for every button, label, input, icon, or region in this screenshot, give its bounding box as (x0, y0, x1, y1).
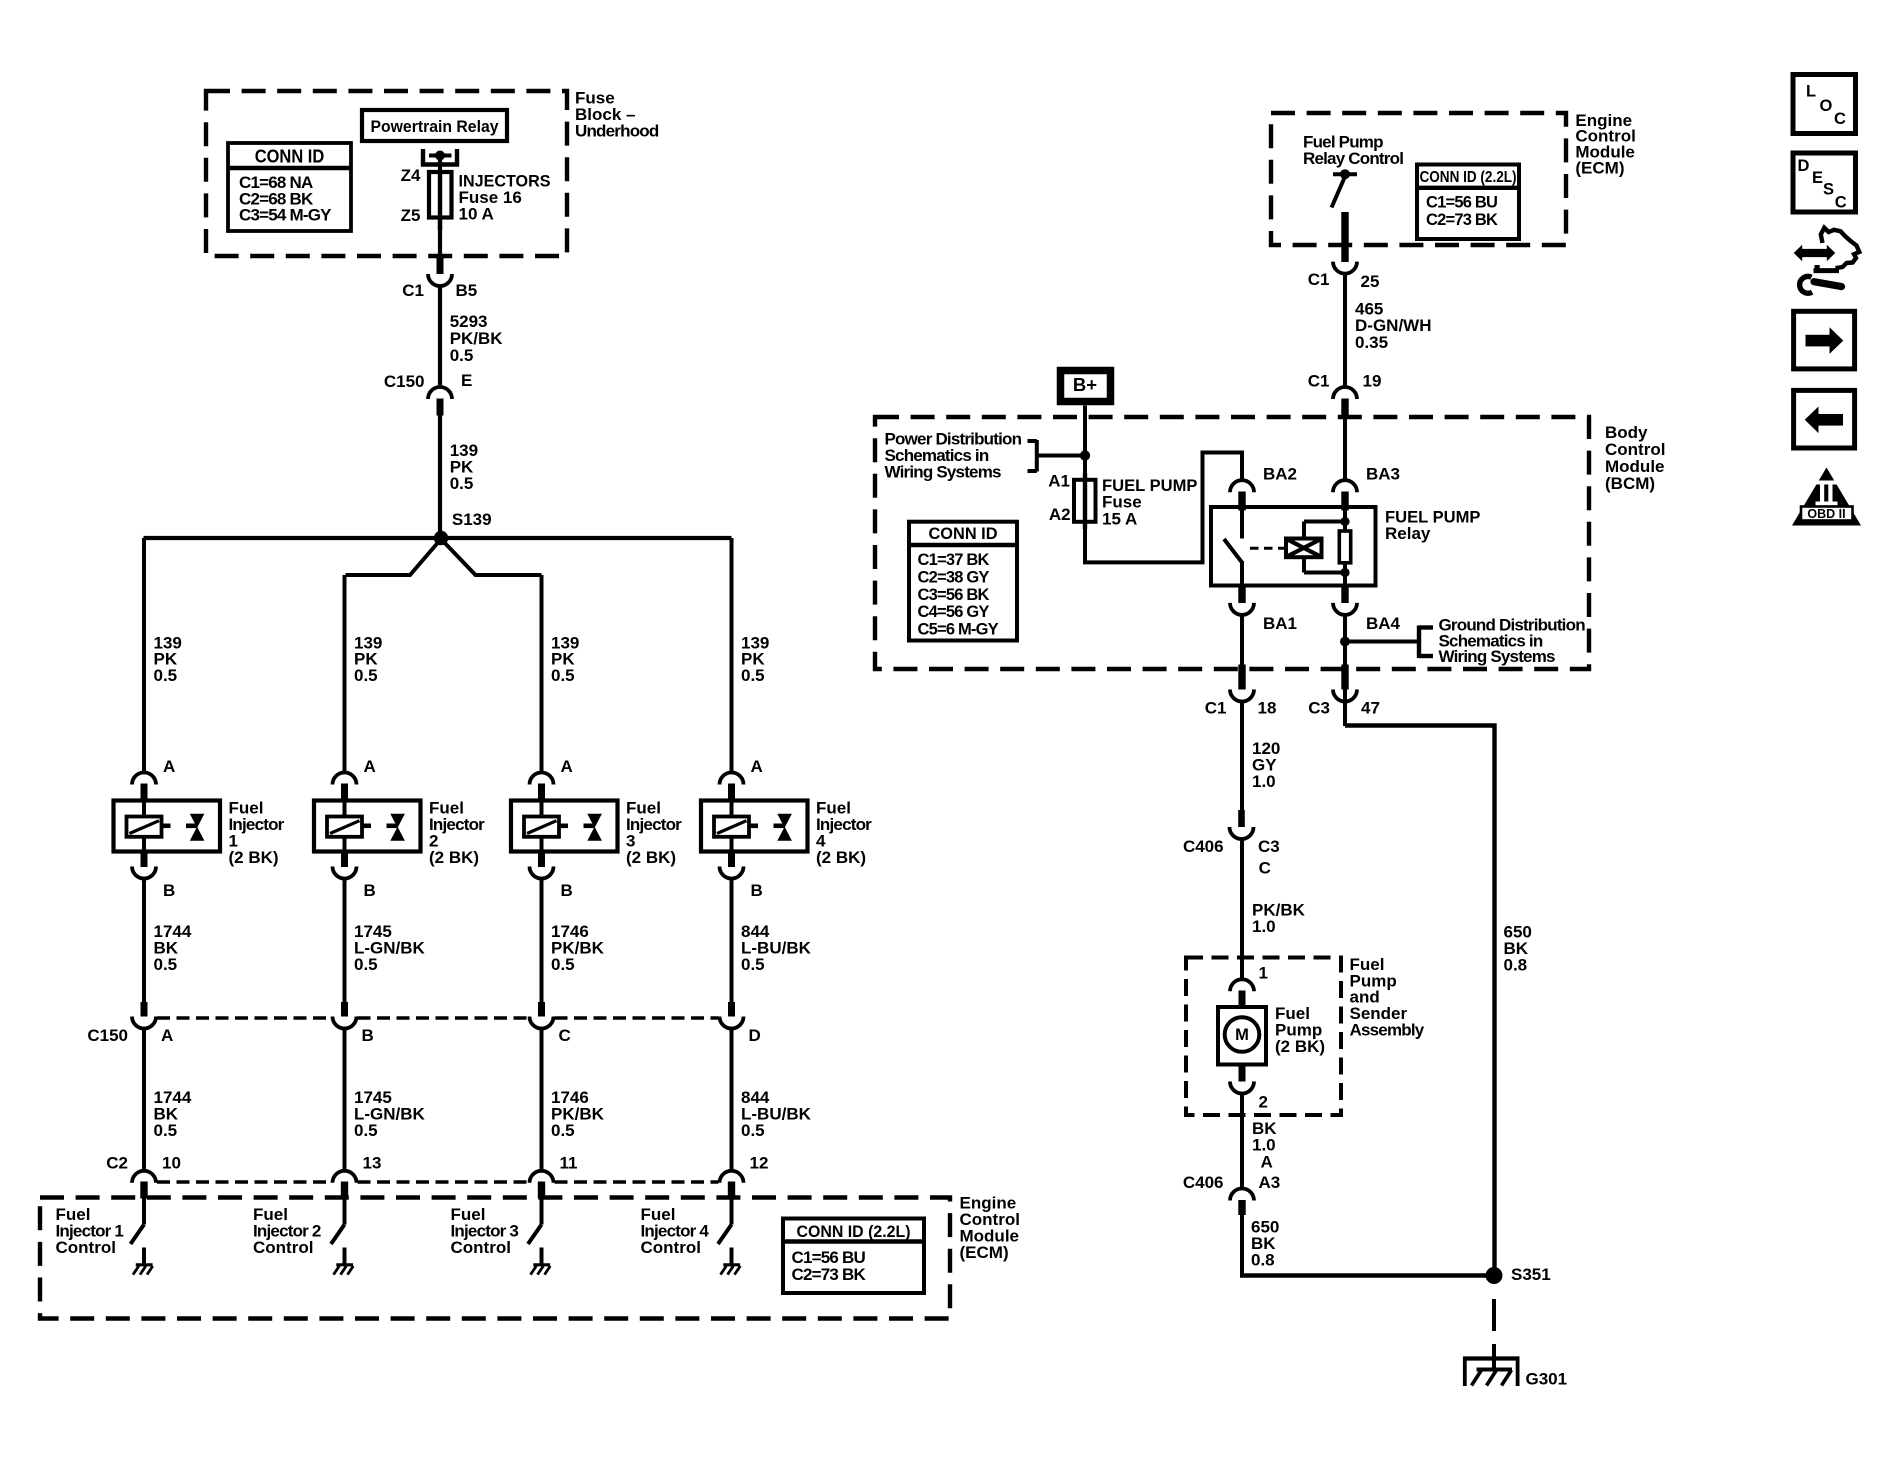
power feed box: B+ (1061, 371, 1111, 402)
relay switch contact (1240, 509, 1244, 539)
svg-text:15 A: 15 A (1102, 509, 1137, 528)
connector BA4 (1341, 586, 1348, 604)
wire 1744 BK 0.5 lower segment (142, 1028, 146, 1171)
svg-text:C1=56 BU: C1=56 BU (1426, 194, 1497, 212)
svg-text:Control: Control (253, 1238, 313, 1257)
connector C150 pin A (141, 1002, 148, 1017)
svg-text:(2 BK): (2 BK) (429, 848, 479, 867)
connector BA1 (1238, 586, 1245, 604)
svg-text:0.5: 0.5 (354, 955, 378, 974)
wire: fuse to connector C1/B5 (438, 218, 442, 257)
svg-text:C1=56 BU: C1=56 BU (792, 1248, 866, 1267)
svg-text:B+: B+ (1073, 374, 1097, 395)
connector: injector 3 pin A (530, 773, 554, 785)
svg-text:(2 BK): (2 BK) (1275, 1037, 1325, 1056)
wire: S139 diagonal to injector 2 branch (346, 539, 442, 575)
svg-text:A2: A2 (1049, 505, 1071, 524)
fuel injector 2 component box (314, 801, 421, 852)
svg-text:C2=73 BK: C2=73 BK (792, 1265, 867, 1284)
fuel injector 1 component box (114, 801, 221, 852)
svg-text:CONN ID (2.2L): CONN ID (2.2L) (797, 1222, 911, 1241)
svg-text:G301: G301 (1526, 1369, 1568, 1388)
icon: DESC box (1793, 153, 1856, 212)
icon: OBD II triangle (1792, 468, 1861, 526)
ECM driver switch (injector 3 control) (540, 1198, 544, 1225)
svg-text:B: B (751, 881, 763, 900)
fuse F16: INJECTORS Fuse 16 10A (429, 172, 452, 218)
svg-text:O: O (1820, 97, 1833, 115)
connector: injector 1 pin B (141, 852, 148, 868)
wire 1746 PK/BK 0.5 lower segment (540, 1028, 544, 1171)
wire: B+ into BCM (1083, 406, 1087, 482)
svg-text:C: C (1835, 194, 1847, 212)
svg-text:Control: Control (641, 1238, 701, 1257)
svg-text:BA2: BA2 (1263, 464, 1297, 483)
svg-text:A: A (1261, 1152, 1273, 1171)
svg-text:0.8: 0.8 (1504, 955, 1528, 974)
fuel injector 1 solenoid coil (127, 817, 162, 837)
svg-text:Wiring Systems: Wiring Systems (1439, 647, 1556, 666)
connector: injector 3 pin B (538, 852, 545, 868)
svg-text:S139: S139 (452, 510, 492, 529)
icon: back arrow box (1794, 390, 1855, 448)
conn-id box: CONN ID (BCM) (909, 522, 1017, 641)
svg-text:13: 13 (363, 1154, 382, 1173)
wire: S139 distribution bus (144, 536, 732, 540)
svg-text:C5=6 M-GY: C5=6 M-GY (918, 621, 999, 639)
svg-text:C4=56 GY: C4=56 GY (918, 603, 990, 621)
svg-text:0.5: 0.5 (551, 955, 575, 974)
ECM driver switch (injector 4 control) (730, 1198, 734, 1225)
icon: LOC box (1793, 75, 1856, 134)
fuel injector 3 solenoid coil (524, 817, 559, 837)
svg-text:CONN ID: CONN ID (929, 524, 998, 543)
svg-text:A1: A1 (1048, 471, 1070, 490)
ground symbol (injector 4 driver) (723, 1263, 740, 1266)
module box: Body Control Module (BCM) (875, 417, 1589, 669)
svg-text:1.0: 1.0 (1252, 917, 1276, 936)
fuel injector 4 nozzle valve (774, 823, 785, 828)
svg-text:Assembly: Assembly (1350, 1021, 1425, 1040)
wire: relay coil top node (1304, 520, 1345, 524)
wire 650 BK 0.8 (pump side) (1240, 1215, 1244, 1276)
svg-text:B: B (561, 881, 573, 900)
svg-text:A: A (561, 757, 573, 776)
svg-text:0.5: 0.5 (154, 1121, 178, 1140)
svg-text:E: E (1812, 169, 1823, 187)
ground symbol (injector 1 driver) (136, 1263, 153, 1266)
svg-text:CONN ID: CONN ID (255, 146, 325, 167)
wire: fuse to relay switch BA2 (1085, 453, 1242, 563)
svg-text:(2 BK): (2 BK) (626, 848, 676, 867)
svg-text:C3: C3 (1308, 698, 1330, 717)
wire: BA1 to C1/18 (1240, 614, 1244, 666)
ECM fuel pump relay driver switch (1333, 172, 1357, 176)
dashed connector line C2 row (157, 1180, 332, 1184)
ground distribution reference bracket (1417, 626, 1421, 659)
module box: Fuse Block - Underhood (206, 91, 567, 256)
wire 139 PK 0.5 to injector 3 (540, 575, 544, 773)
wire 1745 L-GN/BK 0.5 lower segment (343, 1028, 347, 1171)
svg-text:47: 47 (1361, 698, 1380, 717)
svg-text:12: 12 (750, 1154, 769, 1173)
svg-text:19: 19 (1363, 372, 1382, 391)
svg-text:10: 10 (162, 1154, 181, 1173)
svg-text:C3=54 M-GY: C3=54 M-GY (239, 206, 332, 225)
svg-text:Control: Control (451, 1238, 511, 1257)
fuel injector 3 nozzle valve (584, 823, 595, 828)
svg-text:0.5: 0.5 (741, 955, 765, 974)
svg-text:Wiring Systems: Wiring Systems (885, 463, 1002, 482)
connector: injector 2 pin A (333, 773, 357, 785)
svg-text:0.5: 0.5 (450, 474, 474, 493)
dashed connector line C150 row (157, 1016, 332, 1020)
svg-text:1: 1 (1259, 963, 1268, 982)
wire PK/BK 1.0 (1240, 839, 1244, 981)
connector C1 pin 25 (1333, 262, 1357, 274)
svg-text:C406: C406 (1183, 837, 1224, 856)
connector: injector 2 pin B (341, 852, 348, 868)
svg-text:B5: B5 (456, 281, 478, 300)
wire 1745 L-GN/BK 0.5 upper segment (343, 878, 347, 1003)
wire 1744 BK 0.5 upper segment (142, 878, 146, 1003)
svg-text:0.5: 0.5 (551, 666, 575, 685)
svg-text:C1: C1 (402, 281, 424, 300)
svg-text:B: B (163, 881, 175, 900)
svg-text:Z4: Z4 (401, 166, 421, 185)
svg-text:Control: Control (56, 1238, 116, 1257)
fuel injector 4 component box (701, 801, 808, 852)
svg-text:CONN ID (2.2L): CONN ID (2.2L) (1420, 169, 1517, 186)
svg-text:C2=38 GY: C2=38 GY (918, 568, 990, 586)
svg-text:S: S (1823, 180, 1834, 198)
svg-text:10 A: 10 A (459, 204, 494, 223)
svg-text:C1: C1 (1308, 372, 1330, 391)
relay label box: Powertrain Relay (362, 110, 507, 141)
svg-text:Relay Control: Relay Control (1303, 149, 1403, 168)
connector: injector 4 pin B (728, 852, 735, 868)
connector BA2 (1230, 480, 1254, 492)
wire 844 L-BU/BK 0.5 lower segment (730, 1028, 734, 1171)
powertrain relay output bracket (421, 149, 425, 167)
svg-text:0.35: 0.35 (1355, 333, 1388, 352)
wire 5293 PK/BK 0.5 (438, 286, 442, 389)
svg-text:BA3: BA3 (1366, 464, 1400, 483)
icon: vehicle wrench service (1794, 245, 1836, 261)
wire: S351 to ground G301 (dashed) (1492, 1299, 1496, 1331)
node: B+ junction dot (1037, 454, 1085, 458)
wire 465 D-GN/WH 0.35 (1343, 273, 1347, 388)
svg-text:Underhood: Underhood (575, 121, 659, 140)
conn-id box: CONN ID (2.2L) ECM bottom (783, 1219, 924, 1294)
fuel injector 3 component box (511, 801, 618, 852)
svg-text:C150: C150 (384, 372, 425, 391)
svg-text:A: A (751, 757, 763, 776)
node: relay output junction dot (435, 151, 445, 161)
wire 120 GY 1.0 (1240, 701, 1244, 810)
svg-text:BA1: BA1 (1263, 614, 1297, 633)
svg-text:Relay: Relay (1385, 524, 1431, 543)
power distribution reference bracket (1035, 440, 1039, 472)
ground G301 symbol (1463, 1356, 1520, 1360)
svg-text:Z5: Z5 (401, 206, 421, 225)
wire 650 BK 0.8 (relay ground side) (1343, 701, 1347, 726)
svg-text:C1: C1 (1205, 698, 1227, 717)
conn-id box: CONN ID (2.2L) ECM top (1417, 165, 1519, 240)
relay coil suppression resistor (1339, 531, 1350, 563)
connector C150 pin C (538, 1002, 545, 1017)
connector C3 pin 47 (1341, 665, 1348, 690)
svg-text:BA4: BA4 (1366, 614, 1401, 633)
svg-text:C150: C150 (87, 1026, 128, 1045)
svg-text:2: 2 (1259, 1092, 1268, 1111)
svg-text:C: C (559, 1026, 571, 1045)
wire BK 1.0 pin A (1240, 1093, 1244, 1189)
svg-text:C3=56 BK: C3=56 BK (918, 586, 990, 604)
wire 139 PK 0.5 to injector 1 (142, 538, 146, 773)
svg-text:A: A (364, 757, 376, 776)
connector C150 pin D (728, 1002, 735, 1017)
svg-text:(ECM): (ECM) (1575, 159, 1624, 178)
connector C406 pin C3/C (1238, 810, 1245, 827)
fuel injector 4 solenoid coil (714, 817, 749, 837)
connector: injector 4 pin A (720, 773, 744, 785)
connector: fuel pump pin 2 (1239, 1065, 1246, 1082)
svg-text:B: B (362, 1026, 374, 1045)
wire 844 L-BU/BK 0.5 upper segment (730, 878, 734, 1003)
wire: BA4 to C3/47 (1343, 614, 1347, 726)
svg-text:D: D (749, 1026, 761, 1045)
fuse: FUEL PUMP Fuse 15A (1074, 480, 1096, 522)
svg-text:0.5: 0.5 (354, 1121, 378, 1140)
connector C1 pin 18 (1238, 665, 1245, 690)
wire: relay to fuse (438, 155, 442, 173)
svg-text:L: L (1806, 83, 1816, 101)
node: ground distribution junction dot (1340, 637, 1350, 647)
ground symbol (injector 2 driver) (336, 1263, 353, 1266)
svg-text:0.5: 0.5 (154, 955, 178, 974)
fuel injector 2 solenoid coil (327, 817, 362, 837)
svg-text:E: E (461, 371, 472, 390)
svg-text:A: A (163, 757, 175, 776)
ECM driver switch (injector 2 control) (343, 1198, 347, 1225)
wire 139 PK 0.5 to injector 4 (730, 538, 734, 773)
svg-text:C: C (1259, 858, 1271, 877)
ground symbol (injector 3 driver) (533, 1263, 550, 1266)
svg-text:M: M (1235, 1026, 1249, 1044)
svg-text:(ECM): (ECM) (960, 1243, 1009, 1262)
fuel injector 2 nozzle valve (387, 823, 398, 828)
svg-text:(2 BK): (2 BK) (229, 848, 279, 867)
connector BA3 (1333, 480, 1357, 492)
svg-text:11: 11 (560, 1154, 578, 1173)
svg-text:0.5: 0.5 (154, 666, 178, 685)
svg-text:0.5: 0.5 (551, 1121, 575, 1140)
svg-text:C406: C406 (1183, 1173, 1224, 1192)
relay box: FUEL PUMP Relay (1211, 507, 1376, 586)
svg-text:C3: C3 (1258, 837, 1280, 856)
svg-text:D: D (1798, 157, 1810, 175)
svg-text:18: 18 (1258, 698, 1277, 717)
wire: S139 diagonal to injector 3 branch (441, 539, 542, 575)
svg-text:Powertrain Relay: Powertrain Relay (371, 117, 499, 136)
conn-id box: CONN ID (fuse block) (228, 143, 351, 231)
svg-text:(BCM): (BCM) (1605, 474, 1655, 493)
svg-text:(2 BK): (2 BK) (816, 848, 866, 867)
svg-text:C1=37 BK: C1=37 BK (918, 551, 990, 569)
svg-text:0.8: 0.8 (1251, 1251, 1275, 1270)
module box: Engine Control Module (ECM) bottom (40, 1198, 950, 1319)
svg-text:25: 25 (1361, 272, 1380, 291)
svg-text:C2: C2 (106, 1154, 128, 1173)
wire 139 PK 0.5 to injector 2 (343, 575, 347, 773)
icon: forward arrow box (1794, 311, 1855, 369)
motor M: fuel pump (1218, 1007, 1266, 1065)
module box: Fuel Pump and Sender Assembly (1186, 958, 1341, 1116)
wire 1746 PK/BK 0.5 upper segment (540, 878, 544, 1003)
wire: pump ground run to S351 (1240, 1273, 1494, 1277)
svg-text:S351: S351 (1511, 1265, 1551, 1284)
svg-text:A3: A3 (1259, 1173, 1281, 1192)
wire: C1/19 to BA3 (1343, 415, 1347, 482)
svg-text:0.5: 0.5 (741, 666, 765, 685)
svg-text:0.5: 0.5 (741, 1121, 765, 1140)
svg-text:C1: C1 (1308, 270, 1330, 289)
svg-text:0.5: 0.5 (354, 666, 378, 685)
connector: injector 1 pin A (132, 773, 156, 785)
wire 139 PK 0.5 trunk (438, 414, 442, 538)
connector C1 pin B5 (437, 256, 444, 274)
connector C150 pin B (341, 1002, 348, 1017)
svg-text:1.0: 1.0 (1252, 772, 1276, 791)
svg-text:0.5: 0.5 (450, 346, 474, 365)
wire: relay coil bottom node (1304, 571, 1345, 575)
relay actuator dashed link (1250, 547, 1286, 550)
fuel injector 1 nozzle valve (186, 823, 197, 828)
ECM driver switch (injector 1 control) (142, 1198, 146, 1225)
svg-text:C2=73 BK: C2=73 BK (1426, 211, 1498, 229)
svg-text:B: B (364, 881, 376, 900)
svg-text:C: C (1834, 110, 1846, 128)
splice S351 (1486, 1267, 1503, 1284)
svg-text:OBD II: OBD II (1807, 507, 1845, 521)
svg-text:A: A (161, 1026, 173, 1045)
relay coil (1286, 539, 1322, 558)
module box: Engine Control Module (ECM) top (1271, 113, 1566, 245)
